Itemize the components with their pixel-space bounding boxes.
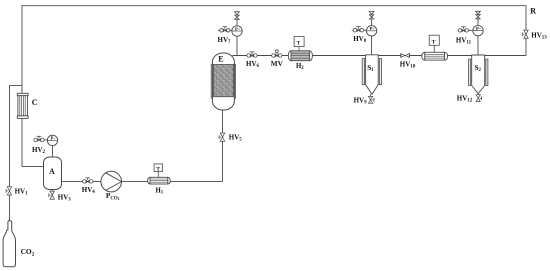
svg-text:A: A [49,167,55,176]
relief valve (extractor) [235,12,240,20]
gauge P (S2) [473,25,483,35]
relief valve (S1) [369,11,374,19]
separator S2 vessel [472,55,485,94]
heater H2 [288,51,312,61]
valve HV13 [523,30,529,38]
wire S1 drain stub [370,94,372,103]
metering valve MV [272,50,282,57]
vessel A [44,157,62,190]
wire S1 relief stem [371,19,373,25]
gauge P (S1) [366,26,376,36]
valve HV4 [83,178,93,183]
valve HV10 [401,53,410,57]
temperature controller box (H2) [294,37,304,51]
gauge P (vessel A) [47,135,57,145]
svg-text:T: T [156,166,160,172]
wire S2 drain stub [477,94,479,101]
CO2 cylinder [3,221,15,267]
valve HV11 [458,27,468,32]
wire HV7 link [218,29,232,31]
valve HV6 [247,52,257,57]
wire A gauge riser [52,146,54,157]
extractor E vessel [212,53,234,110]
gauge P (extractor) [232,26,242,36]
valve HV9 [369,96,375,103]
wire E relief stem [236,20,238,26]
separator S1 vessel [366,55,379,95]
heater H3 [422,52,448,60]
wire pump to H1 to riser corner [122,109,223,181]
relief valve (S2) [476,11,481,19]
wire main top process line [233,55,527,57]
cooler C [17,93,28,118]
wire A to pump [62,180,101,182]
wire recycle top line [22,6,526,119]
svg-text:E: E [218,55,223,64]
wire S2 relief stem [477,19,479,25]
valve HV5 [219,133,225,141]
svg-text:R: R [530,7,536,16]
separator S2 jacket [469,59,488,85]
svg-text:MV: MV [271,60,284,68]
valve HV12 [476,95,482,102]
wire A drain stub [51,190,53,200]
wire cylinder branch tee [10,86,23,221]
wire E gauge riser [236,36,238,55]
wire S2 gauge riser [477,36,479,57]
svg-text:T: T [297,41,301,47]
valve HV3 [49,191,55,199]
wire HV2 link [34,139,48,141]
wire cooler to vessel A [22,119,44,167]
temperature controller box (H3) [429,35,439,52]
wire HV8 link [352,29,367,31]
svg-text:T: T [432,39,436,45]
valve HV7 [220,27,230,32]
heater H1 [148,177,171,184]
svg-text:C: C [32,98,38,107]
extractor E sleeve [211,64,235,98]
valve HV2 [34,136,44,141]
separator S1 jacket [362,59,381,85]
pump PCO2 [101,171,122,192]
temperature controller box (H1) [154,164,162,177]
valve HV1 [6,187,12,195]
valve HV8 [353,27,363,32]
extractor E packing [213,65,233,97]
wire S1 gauge riser [371,36,373,57]
wire HV11 link [458,29,473,31]
